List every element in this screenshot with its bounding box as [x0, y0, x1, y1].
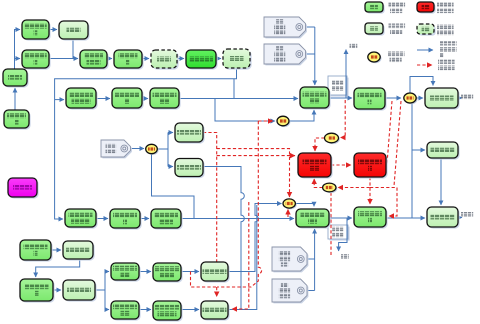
- tag 一线人工加入薄片: [264, 17, 307, 38]
- wire songsan to yuhun: [142, 58, 149, 60]
- wire qiepian1 to zhenkong: [49, 58, 78, 60]
- wire tag2 to trunk: [306, 53, 315, 55]
- process 叶丝1线掺配段: [300, 87, 331, 110]
- wire future stub under nodeD: [287, 210, 289, 218]
- wire nodeD to chanpei2 top: [296, 204, 314, 207]
- storage dashed 贮叶柜: [223, 49, 252, 70]
- tag 二线人工加入梗丝: [272, 247, 308, 272]
- wire tag1 to trunk: [306, 26, 315, 28]
- future 叶丝3线掺配段: [298, 153, 333, 179]
- wire future chanpei3 to jiaxiang3: [331, 164, 351, 166]
- wire gengsizu2 up join: [228, 205, 257, 310]
- wire zhenkong to songsan: [107, 58, 112, 60]
- buffer 流量均衡缓冲 lower: [328, 225, 350, 241]
- future 叶丝3加香段: [354, 153, 388, 179]
- wire future vertical join: [217, 121, 262, 287]
- wire tag-pengsi to nodeP: [131, 148, 145, 150]
- process 叶丝1线烘丝段: [150, 88, 181, 110]
- wire hongsi1 to chanpei1: [179, 98, 298, 100]
- legend text 交叉点: [390, 58, 402, 63]
- wire nodeQ to chanpei1 bottom: [289, 110, 314, 121]
- legend 将来更换样例(红): [417, 2, 436, 14]
- legend text 现在有将来改造: [437, 25, 454, 30]
- wire yuliao-ku down: [72, 39, 74, 59]
- process 梗丝2线切梗段: [111, 301, 141, 321]
- storage 膨丝柜组2: [175, 159, 205, 179]
- wire yuanliao-ku to pianyan: [14, 88, 16, 110]
- wire feed to qiepian2: [15, 30, 21, 70]
- wire qiliu2 to chanpei2: [181, 218, 294, 220]
- wire future chuantong branch: [191, 272, 217, 288]
- wire nodeC trunk down: [411, 103, 413, 219]
- legend text 现在没有将来增加: [437, 3, 454, 8]
- wire zancun2 to zhusi2: [440, 158, 442, 205]
- wire future pengsizu1 down: [203, 133, 217, 282]
- wire trunk2 up to chanpei2 bottom: [314, 229, 316, 291]
- wire zhuye trunk down-left: [55, 68, 237, 219]
- wire shaifen to zhuye: [216, 58, 221, 60]
- process 真空回潮处理段: [80, 50, 109, 70]
- legend text line2b: [437, 9, 454, 14]
- legend text 向: [440, 53, 443, 58]
- legend text 现有的存储单元: [389, 24, 406, 29]
- wire chukou1 up: [345, 50, 347, 99]
- process 叶丝2加香段: [354, 207, 388, 229]
- wire future jiaxiang3 to nodeB: [338, 177, 370, 188]
- wire genghou to zhugeng2: [53, 289, 61, 291]
- process 梗预处理前段: [20, 240, 53, 262]
- legend 现有存储单元样例: [365, 23, 385, 36]
- node 节点D: [283, 199, 297, 210]
- wire runye1 to qiesi1: [96, 98, 110, 100]
- legend text 加的走向: [438, 66, 455, 71]
- legend text 艺流程走: [440, 47, 457, 52]
- label 去卷包 upper: [461, 95, 473, 100]
- storage dashed 预混柜: [151, 50, 179, 70]
- process 梗丝1线传统处理: [153, 263, 183, 283]
- tag 人工加入膨丝: [101, 140, 132, 158]
- wire zhugeng2 split: [95, 272, 109, 310]
- process 切片1处理段: [22, 50, 51, 70]
- node 节点P: [146, 144, 159, 155]
- storage 梗丝柜组1: [201, 262, 230, 283]
- wire split to pengsi2: [168, 166, 173, 168]
- unit magenta 备用段: [8, 178, 39, 199]
- wire chuantong to gengsizu1: [181, 271, 199, 273]
- wire qiesi1 to hongsi1: [142, 98, 148, 100]
- wire qiesi2 to qiliu2: [140, 218, 149, 220]
- process 叶丝1加香段: [354, 88, 387, 111]
- wire future nodeB to chanpei3 bottom: [314, 179, 322, 188]
- wire zhusi1 to juanbao: [458, 97, 462, 99]
- label 出口 lower: [341, 254, 349, 259]
- wire future nodeB down: [330, 193, 332, 256]
- process 切片2处理段: [22, 20, 51, 41]
- process 叶丝1线热风润叶段: [66, 88, 98, 110]
- wire legend blue arrow: [417, 49, 433, 51]
- wire qiegeng2 to baoban: [139, 309, 151, 311]
- wire zhugeng1 to genghou: [36, 259, 80, 277]
- legend 现有生产单元样例: [365, 2, 385, 14]
- wire tag5 to trunk2: [301, 290, 315, 292]
- wire zhusi2 to juanbao: [458, 217, 462, 219]
- storage 2楼贮丝柜: [427, 207, 460, 229]
- process 叶丝2线热风润叶段: [65, 209, 98, 229]
- process 筛分加料段: [186, 50, 218, 70]
- wire future tap to nodeA: [341, 100, 346, 138]
- wire qiepian2 to yuliao-ku: [49, 29, 57, 31]
- wire chanpei2 to jiaxiang2: [329, 217, 352, 219]
- process 梗丝2线薄板化床处理: [153, 301, 183, 322]
- storage 一次贮梗柜: [63, 241, 95, 261]
- process 叶丝2气流干燥段: [151, 209, 183, 230]
- wire baoban to gengsizu2: [181, 309, 199, 311]
- wire trunk to zancun2: [412, 149, 425, 151]
- node 节点B: [323, 183, 338, 193]
- wire nodeC over-top to zhusi1: [410, 77, 433, 94]
- wire gengsizu1 to nodeD: [228, 204, 282, 272]
- legend text 现有的工: [440, 41, 457, 46]
- wire future junction to gengsizu2 top: [216, 287, 218, 297]
- legend 场地改造样例(虚线): [417, 24, 436, 36]
- wire future branch upper to nodeD: [217, 149, 290, 197]
- wire trunk branch to runye1: [55, 99, 64, 101]
- storage 膨丝柜组1: [175, 123, 205, 144]
- label 出口 upper: [350, 44, 358, 49]
- storage 2楼暂存柜: [427, 142, 460, 160]
- wire runye2 to qiesi2: [96, 218, 108, 220]
- wire future diag 2: [394, 101, 401, 186]
- wire future nodeA to chanpei3 top: [315, 138, 325, 151]
- node 节点Q: [277, 116, 290, 127]
- node 节点A: [325, 133, 340, 144]
- wire feed to qiepian1: [15, 58, 21, 60]
- storage 梗丝柜组2: [201, 301, 230, 321]
- process 梗丝1线切梗段: [111, 263, 141, 282]
- process 片烟段: [3, 69, 29, 88]
- wire nodeC to zhusi1: [417, 97, 424, 99]
- wire future diag 1: [387, 101, 393, 170]
- tag 一线人工加入梗丝: [264, 44, 307, 65]
- process 梗预处理后段: [20, 279, 55, 303]
- wire branch to nodeQ: [215, 99, 275, 122]
- wire split to qiegeng2: [105, 309, 109, 311]
- legend text line2: [390, 9, 402, 14]
- wire tag4 to trunk2: [301, 258, 315, 260]
- legend text 现有的生产单元: [389, 3, 406, 8]
- wire zhuye join line1: [233, 79, 235, 99]
- process 叶丝1切丝段: [112, 88, 144, 110]
- process 松散回潮段: [114, 50, 144, 70]
- process 叶丝2线掺配段: [296, 209, 331, 229]
- wire future vertical to gengsizu2: [232, 202, 249, 309]
- node 节点C: [404, 93, 418, 104]
- wire gengqian to zhugeng1: [51, 249, 61, 251]
- buffer 流量均衡缓冲 upper: [328, 76, 349, 97]
- wire qiegeng1 to chuantong: [139, 271, 151, 273]
- storage 原料立体库: [4, 110, 31, 130]
- tag 二线人工加入薄片: [272, 279, 308, 303]
- wire pengsizu2 right down join: [203, 167, 244, 310]
- wire chukou2 down: [339, 218, 347, 251]
- wire tags trunk to chanpei1 top: [314, 27, 316, 85]
- wire yuhun to shaifen: [177, 58, 184, 60]
- storage 余料库: [59, 21, 90, 41]
- wire jiaxiang1 to nodeC: [385, 97, 401, 99]
- process 叶丝2切丝段: [110, 209, 142, 230]
- wire future branch to chanpei3: [217, 155, 295, 157]
- wire future to nodeQ: [258, 120, 273, 122]
- legend node 节点样例: [368, 52, 382, 63]
- legend text line2c: [390, 30, 402, 35]
- legend text 将来要增: [438, 60, 455, 65]
- storage 1楼贮丝柜: [425, 88, 460, 110]
- wire chanpei1 to jiaxiang1: [329, 97, 352, 99]
- wire future branch to jiaxiang2 right: [370, 188, 397, 217]
- wire jiaxiang2 to zhusi2: [386, 217, 425, 219]
- legend text 几条线的: [388, 52, 405, 57]
- wire nodeP to pengsi split: [157, 133, 173, 167]
- storage 二次贮梗柜: [63, 280, 97, 302]
- label 去卷包 lower: [461, 212, 473, 217]
- wire future branch to jiaxiang2 top: [369, 188, 371, 205]
- legend text line2d: [437, 31, 454, 36]
- wire nodeP down join line2: [152, 154, 195, 219]
- wire legend red arrow: [417, 64, 432, 66]
